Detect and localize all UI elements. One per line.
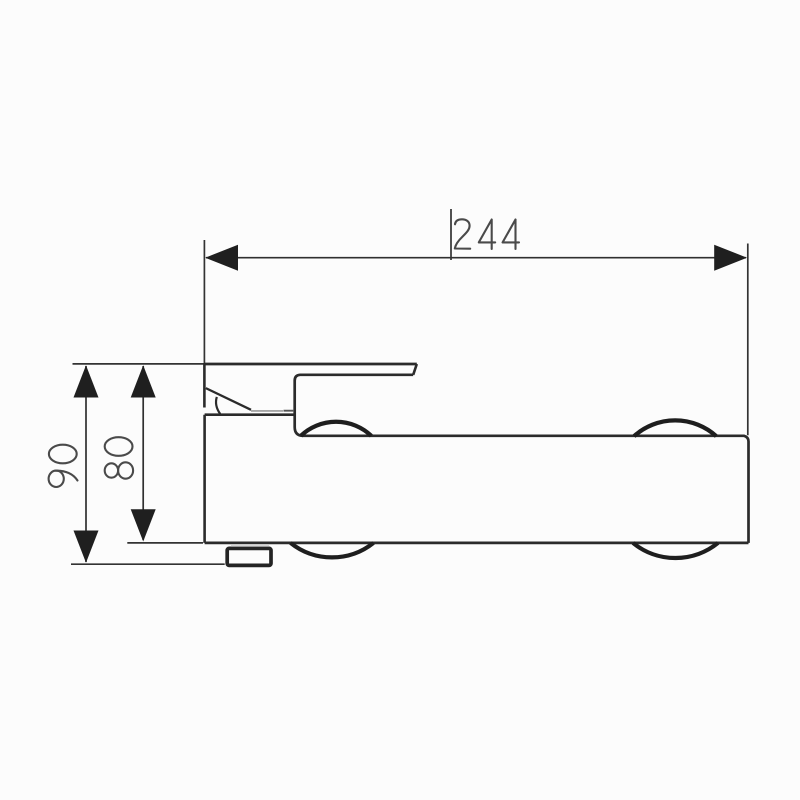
label 80 digit 8 rotated bbox=[105, 462, 133, 478]
dimension 244 right witness line bbox=[747, 244, 749, 436]
label 90 digit 0 rotated bbox=[49, 445, 77, 464]
dimension 244 center tick bbox=[450, 209, 452, 260]
label 244 digit 2 bbox=[455, 219, 470, 248]
dimension 90 bottom witness line bbox=[71, 563, 225, 565]
faucet handle pivot arc bbox=[216, 397, 220, 414]
dimension 244 right arrowhead bbox=[714, 245, 747, 271]
label 90 digit 9 rotated bbox=[49, 471, 78, 487]
right union top arc bbox=[634, 420, 716, 436]
faucet handle seam line dark bbox=[284, 410, 295, 412]
dimension 80 line bbox=[142, 366, 144, 540]
faucet body right edge bbox=[747, 442, 750, 543]
left union top arc bbox=[301, 422, 372, 436]
faucet handle left edge bbox=[203, 363, 206, 408]
label 244 digit 4 second bbox=[503, 220, 519, 250]
faucet body left edge bbox=[203, 415, 206, 543]
label 244 digit 4 first bbox=[479, 220, 495, 250]
outlet spout top gray line bbox=[231, 545, 269, 547]
dimension 244 left witness line bbox=[203, 240, 205, 363]
dimension 244 left arrowhead bbox=[205, 245, 238, 271]
dimension 80 bottom arrowhead bbox=[131, 509, 156, 541]
dimension 244 line bbox=[206, 257, 746, 259]
faucet body cap top edge bbox=[205, 413, 295, 416]
faucet handle bottom line and collar bbox=[295, 375, 414, 436]
faucet handle tip diagonal bbox=[413, 364, 417, 375]
faucet handle underside diagonal bbox=[206, 388, 251, 410]
dimension 90 top witness line bbox=[73, 363, 205, 365]
faucet handle seam line gray bbox=[251, 410, 283, 412]
dimension 80 top arrowhead bbox=[131, 365, 156, 397]
dimension 90 top arrowhead bbox=[74, 365, 99, 397]
label 80 digit 0 rotated bbox=[105, 437, 133, 456]
right union bottom arc bbox=[633, 543, 718, 558]
faucet body bottom edge bbox=[205, 542, 749, 545]
dimension 90 bottom arrowhead bbox=[74, 531, 99, 563]
faucet body top edge bbox=[303, 436, 749, 442]
dimension 80 bottom witness line bbox=[127, 542, 203, 544]
left union bottom arc bbox=[291, 543, 374, 558]
faucet handle top line bbox=[204, 363, 416, 366]
dimension 90 line bbox=[85, 366, 87, 562]
outlet spout rectangle bbox=[227, 548, 271, 565]
